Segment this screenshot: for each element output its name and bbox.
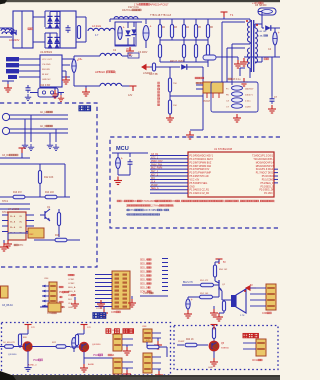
svg-text:KEY_2: KEY_2	[151, 175, 159, 177]
svg-text:OU: OU	[19, 216, 23, 218]
resistor R25 vertical	[212, 327, 215, 341]
svg-text:COM2: COM2	[68, 283, 75, 285]
svg-text:PWM_OXV: PWM_OXV	[151, 161, 163, 163]
svg-text:15K: 15K	[173, 105, 177, 107]
resistor R23	[146, 340, 167, 357]
svg-text:PC817: PC817	[203, 101, 211, 103]
svg-text:R24 1K: R24 1K	[186, 339, 194, 341]
svg-text:+12V: +12V	[143, 293, 149, 295]
wire drv1 down	[27, 351, 29, 364]
label AC	[9, 38, 20, 42]
svg-text:GND: GND	[68, 307, 73, 309]
svg-text:RI SW: RI SW	[42, 74, 49, 76]
mcu wire labels	[151, 154, 163, 190]
svg-text:R51 472: R51 472	[200, 280, 209, 282]
diode D6 vertical	[131, 22, 136, 45]
svg-text:FB DRV: FB DRV	[42, 69, 51, 71]
svg-text:PUMP: PUMP	[151, 185, 158, 187]
svg-text:18uH=1u: 18uH=1u	[122, 9, 132, 12]
svg-text:P3.4/T0/PWM OXV: P3.4/T0/PWM OXV	[190, 169, 210, 171]
diode D8	[262, 25, 280, 31]
wire stub b	[0, 209, 30, 214]
svg-text:MCU: MCU	[116, 146, 129, 152]
svg-text:CN7: CN7	[112, 330, 117, 332]
label gnd1	[20, 377, 28, 379]
wire drv1 in	[0, 346, 4, 348]
resistor R7 second row	[158, 38, 161, 62]
mcu wires left bundle	[150, 156, 188, 194]
ic U2 power controller	[40, 51, 62, 87]
svg-text:R10 0.5W: R10 0.5W	[40, 85, 51, 87]
wire sensor rail c	[0, 196, 70, 198]
flag pump	[211, 325, 218, 330]
transistor Q4 red	[79, 342, 101, 351]
resistor R31 vertical	[168, 100, 177, 114]
svg-text:SEG_G: SEG_G	[140, 284, 148, 286]
svg-text:VCC: VCC	[126, 48, 131, 51]
connector CN7	[112, 330, 133, 351]
net flag 12V	[122, 86, 137, 97]
svg-text:T7B 9-18 T7B 11-8: T7B 9-18 T7B 11-8	[150, 14, 172, 17]
capacitor C5	[26, 85, 31, 93]
svg-text:GND NC: GND NC	[42, 79, 51, 81]
ground drv1	[24, 364, 31, 371]
transformer T1 primary winding	[232, 20, 250, 78]
wire sensor rail b	[0, 164, 65, 197]
resistor R13	[13, 192, 25, 199]
net flag VCC	[122, 48, 139, 58]
connector CN8	[142, 326, 161, 342]
optocoupler U3	[196, 82, 223, 103]
svg-text:P5.1/COM2: P5.1/COM2	[262, 179, 275, 181]
svg-text:DIO: DIO	[68, 299, 72, 301]
connector CN11	[243, 339, 266, 362]
svg-text:P5.0/COM1: P5.0/COM1	[262, 176, 275, 178]
svg-text:C3 400V: C3 400V	[138, 51, 148, 54]
svg-text:FR107 1N60: FR107 1N60	[170, 60, 184, 63]
resistor R21	[3, 342, 23, 348]
transistor Q2	[215, 280, 226, 291]
resistor R30 vertical	[168, 78, 177, 92]
ground cn7	[123, 345, 131, 355]
ground c11	[184, 309, 192, 318]
bridge rectifier D2 D3	[47, 12, 59, 29]
label gnd pump	[208, 367, 213, 369]
label MCU	[116, 146, 129, 152]
svg-text:102M: 102M	[245, 107, 251, 109]
mcu note 4	[126, 214, 160, 217]
transistor Q3 red	[8, 342, 32, 356]
resistor R20 vertical	[18, 334, 28, 348]
label 氧阀风机	[106, 329, 133, 336]
ground in c	[47, 142, 53, 148]
svg-text:+19V: +19V	[252, 2, 258, 5]
label cn7	[108, 354, 115, 357]
mcu wires right bundle	[274, 169, 278, 183]
resistor R19 vertical	[222, 300, 225, 313]
resistor R3	[170, 19, 177, 38]
svg-text:P5.3/SEG_G: P5.3/SEG_G	[261, 186, 274, 188]
19V cluster box	[115, 22, 136, 46]
transformer T1 secondary winding	[255, 24, 262, 63]
filter box with cap C1	[60, 11, 76, 48]
wire secondary bottom	[244, 57, 280, 62]
svg-text:P3.2/INT0/PWM BUZ: P3.2/INT0/PWM BUZ	[190, 162, 212, 164]
svg-text:VCC OUT: VCC OUT	[42, 59, 53, 61]
wire bridge rails	[45, 12, 60, 49]
fuse F2 top right	[255, 4, 276, 15]
svg-text:GND: GND	[190, 186, 195, 188]
svg-text:P5.5/CMPO SEG: P5.5/CMPO SEG	[190, 183, 208, 185]
input block dashed border	[0, 103, 97, 267]
ground in a	[22, 142, 28, 148]
svg-text:CLK: CLK	[151, 181, 156, 183]
hv rail wire	[142, 18, 236, 20]
svg-text:AP8022+PC817: AP8022+PC817	[150, 3, 169, 7]
svg-text:SEG_E: SEG_E	[140, 276, 148, 278]
svg-text:+: +	[121, 157, 123, 161]
thermistor connector CN2	[8, 228, 44, 240]
label vout	[252, 2, 263, 5]
svg-text:P5.2/SEG_F: P5.2/SEG_F	[261, 183, 274, 185]
svg-text:12V: 12V	[31, 327, 35, 329]
svg-text:CX: CX	[226, 101, 230, 103]
flag drv1	[25, 325, 36, 335]
mcu block dashed border	[110, 137, 280, 228]
label 19V	[128, 5, 139, 9]
label choke	[122, 9, 141, 12]
ground safety	[233, 114, 241, 122]
label gnd2	[76, 377, 84, 379]
svg-text:VCC +5V: VCC +5V	[190, 179, 200, 181]
resistor R2	[158, 19, 165, 38]
wire j2 a	[14, 125, 68, 129]
connector CN4 keys	[42, 282, 57, 315]
svg-text:BUZ 2.7K: BUZ 2.7K	[183, 282, 193, 284]
svg-text:C6+: C6+	[78, 58, 83, 61]
buzzer resistor R50 vertical	[213, 259, 228, 281]
wire pump in	[177, 341, 185, 345]
resistor R52 divider	[188, 290, 219, 299]
label vertical fb	[158, 82, 160, 106]
wire sensor rail a	[0, 154, 30, 158]
inductor L2	[88, 24, 115, 37]
net label box 2	[6, 63, 19, 67]
svg-text:Q3 8550: Q3 8550	[8, 354, 17, 356]
ground crystal b	[58, 93, 64, 102]
capacitor C6 electrolytic	[72, 56, 83, 78]
svg-text:SS8550: SS8550	[221, 348, 230, 350]
photo dark bottom edge	[0, 371, 280, 380]
svg-text:R52 103: R52 103	[200, 293, 209, 295]
photo dark top edge	[0, 0, 280, 4]
ground display	[100, 307, 108, 318]
inductor L1 AC input coil	[0, 28, 15, 37]
opamp pins left	[2, 215, 8, 232]
diode D1	[11, 30, 16, 35]
svg-text:R16: R16	[55, 235, 60, 237]
ground below C2	[126, 47, 134, 55]
fuse row 3	[226, 98, 251, 103]
inductor L4	[100, 83, 122, 86]
resistor R1 vertical	[77, 26, 80, 39]
svg-text:U1 STC8G1K08: U1 STC8G1K08	[214, 148, 233, 151]
svg-text:CS GND: CS GND	[42, 64, 51, 66]
ground u2 left	[2, 81, 14, 92]
svg-text:AP8022 (: AP8022 (	[95, 70, 107, 74]
svg-text:0.22u: 0.22u	[245, 101, 251, 103]
wire j1 a	[14, 111, 68, 115]
svg-text:KEY_1: KEY_1	[151, 171, 159, 173]
resistor R14	[45, 192, 57, 199]
label vr	[264, 58, 269, 60]
transformer T1 core	[251, 20, 253, 72]
mcu ic U1 right pin names	[252, 155, 275, 196]
label pwm1	[28, 359, 43, 367]
wire L2 to C2	[115, 22, 120, 45]
wire cap rail	[115, 22, 142, 45]
svg-text:): )	[115, 70, 116, 74]
transistor Q1	[40, 206, 51, 221]
wire secondary to diode	[258, 12, 262, 29]
ground in b	[28, 144, 34, 150]
wire stub a	[0, 201, 30, 204]
resistor R51	[200, 280, 219, 287]
wire vcc rail	[70, 56, 100, 59]
svg-text:COM1: COM1	[68, 279, 75, 281]
svg-text:CN8: CN8	[142, 326, 147, 328]
svg-text:NTC: NTC	[19, 245, 24, 247]
output dotted box	[2, 323, 171, 376]
transistor Q5 red	[209, 341, 229, 351]
ground opamp	[0, 240, 8, 251]
wire u2 pin4	[19, 76, 40, 78]
svg-text:P2.0/SEG_DP: P2.0/SEG_DP	[259, 190, 274, 192]
svg-text:CY: CY	[226, 107, 230, 109]
label crystal	[40, 85, 51, 87]
svg-text:+: +	[123, 26, 125, 30]
key labels right	[44, 278, 49, 280]
ground u2 right b	[62, 71, 70, 84]
svg-text:12V: 12V	[96, 308, 100, 310]
svg-text:SEG_F: SEG_F	[140, 280, 148, 282]
ground above 输出	[96, 300, 105, 310]
svg-text:SEG_B: SEG_B	[68, 291, 76, 293]
key labels	[59, 286, 69, 308]
label 低压泵	[243, 333, 258, 337]
svg-text:CZ_R1: CZ_R1	[2, 155, 10, 157]
label ap8022	[95, 70, 116, 74]
svg-text:CN11: CN11	[252, 360, 258, 362]
svg-text:R50 102: R50 102	[219, 269, 228, 271]
inductor L5 on rail	[110, 17, 142, 22]
bridge rectifier D4 D5	[47, 33, 59, 49]
wire u2 pin2	[19, 64, 40, 66]
ground snubber	[186, 131, 194, 139]
svg-text:+: +	[150, 25, 152, 29]
ground u2 right a	[51, 87, 59, 98]
wire pump down	[213, 351, 215, 358]
svg-text:AC 220V: AC 220V	[9, 38, 20, 42]
wire drop 2	[30, 115, 32, 142]
ground above outbox	[128, 296, 136, 307]
wire u2 pin1	[19, 58, 40, 60]
svg-text:NTC1: NTC1	[2, 201, 9, 203]
label 输出	[93, 313, 106, 318]
svg-text:NTC_1: NTC_1	[151, 157, 159, 159]
svg-text:SEG_B: SEG_B	[140, 264, 148, 266]
svg-text:12V: 12V	[87, 327, 91, 329]
mcu ic U1 body	[188, 148, 274, 197]
svg-text:U4 LM358: U4 LM358	[8, 208, 20, 211]
inductor L3	[100, 53, 122, 56]
flag drv2	[81, 325, 92, 335]
ground above outbox 2	[71, 297, 79, 308]
svg-text:CN5: CN5	[111, 311, 116, 314]
svg-text:SCLK/P1.6 DIG2: SCLK/P1.6 DIG2	[256, 169, 274, 171]
wire hv to primary	[224, 17, 250, 20]
svg-text:CN6: CN6	[262, 312, 267, 315]
wire j1 b	[14, 118, 68, 120]
ground cn8	[154, 338, 162, 349]
mcu ic U1 left pin names	[190, 155, 214, 196]
ground cn9	[123, 368, 131, 378]
svg-text:5V: 5V	[129, 54, 133, 58]
resistor R4	[182, 19, 189, 38]
wire choke to bridge bottom	[33, 33, 60, 48]
zener diode ZD1	[125, 22, 130, 45]
wire choke to bridge top	[33, 11, 60, 27]
svg-text:CZ_R1: CZ_R1	[151, 154, 159, 156]
connector CN6	[250, 284, 276, 315]
capacitor C3 bulk electrolytic	[138, 19, 152, 54]
connector J2 round	[2, 127, 14, 134]
mcu cap C8	[112, 153, 148, 175]
buzzer BZ1 speaker	[222, 289, 246, 317]
svg-text:PUMP: PUMP	[178, 341, 185, 343]
label 输入	[79, 106, 91, 111]
capacitor C7 right edge	[268, 57, 278, 113]
net flag 5V buzzer	[216, 259, 227, 264]
crystal Y1	[30, 88, 64, 97]
connector CN3 small	[1, 286, 9, 298]
resistor R10 second row	[206, 38, 209, 62]
svg-text:L2 2mH: L2 2mH	[92, 24, 101, 28]
divider top	[169, 67, 171, 78]
wire above outbox	[140, 292, 168, 296]
fuse row 1	[226, 78, 254, 90]
resistor R8 second row	[182, 38, 185, 62]
svg-text:12V: 12V	[128, 94, 133, 97]
wire primary bottom down	[222, 22, 250, 85]
svg-text:GND: GND	[208, 367, 213, 369]
svg-text:PWM_: PWM_	[33, 359, 41, 362]
net flag arrow pump	[246, 285, 256, 290]
svg-text:DIO: DIO	[151, 178, 155, 180]
resistor R6	[206, 19, 213, 38]
svg-text:SEG_C: SEG_C	[140, 268, 148, 270]
wire drop 4	[55, 129, 57, 142]
mcu cap C9	[118, 153, 133, 175]
svg-text:,2.7KHz: ,2.7KHz	[151, 206, 160, 208]
svg-text:R14 103: R14 103	[45, 192, 54, 194]
svg-text:BUZ_PWM: BUZ_PWM	[151, 168, 162, 170]
wire u2 right pins	[62, 59, 70, 77]
net flag L	[142, 65, 153, 76]
label hv bus	[150, 14, 172, 17]
wire drop 1	[24, 119, 26, 142]
wire row join	[160, 38, 208, 62]
transformer label	[221, 12, 268, 38]
ground cn2	[4, 240, 24, 248]
ground mid	[222, 57, 242, 68]
opamp pins right	[26, 215, 34, 232]
svg-text:2X 0.1u: 2X 0.1u	[233, 79, 242, 81]
connector CN10	[140, 353, 161, 379]
svg-text:10K B=3950: 10K B=3950	[144, 210, 158, 212]
svg-text:OU: OU	[19, 222, 23, 224]
svg-text:1K_0R 4.7K: 1K_0R 4.7K	[3, 342, 15, 344]
wire drop 3	[49, 133, 51, 142]
wire lower rail	[74, 78, 100, 86]
svg-text:R13 472: R13 472	[13, 192, 22, 194]
mcu note 3	[126, 209, 170, 212]
svg-text:U2 AP8022: U2 AP8022	[40, 51, 53, 54]
resistor R5	[194, 19, 201, 38]
wire u2 pin3	[19, 70, 40, 72]
ground pump	[210, 358, 218, 366]
svg-text:CN2: CN2	[29, 234, 34, 236]
part above outbox	[40, 303, 66, 312]
svg-text:P3.5/T1/PWM PUMP: P3.5/T1/PWM PUMP	[190, 173, 212, 175]
resistor R11 box	[203, 55, 222, 60]
pump dotted box	[174, 326, 278, 370]
svg-text:D10 19V: D10 19V	[258, 31, 267, 33]
svg-text:NTC: NTC	[130, 210, 135, 212]
svg-text:SEG_D: SEG_D	[140, 272, 148, 274]
mcu note 1	[117, 200, 275, 203]
divider mid	[170, 92, 203, 100]
label sampling	[195, 77, 204, 84]
common-mode choke LF1 box	[13, 11, 33, 48]
net label box 3	[6, 69, 19, 73]
fuse row 4	[226, 104, 251, 109]
wire j2 b	[14, 132, 68, 134]
svg-text:R12 10K: R12 10K	[44, 176, 54, 179]
resistor R9 second row	[194, 38, 197, 62]
ground above pump box	[210, 306, 218, 317]
svg-text:OU: OU	[19, 227, 23, 229]
net labels bundle	[140, 259, 168, 294]
svg-text:5V: 5V	[223, 262, 226, 264]
resistor R15 vertical	[57, 209, 60, 237]
ground buzzer	[215, 313, 224, 321]
diode D7 snubber	[150, 60, 203, 71]
opamp U4	[8, 208, 26, 240]
ground divider	[166, 114, 174, 122]
safety parts list box	[211, 82, 258, 112]
ground lower	[82, 86, 90, 96]
svg-text:Q4 8550: Q4 8550	[92, 344, 101, 346]
svg-text:17W: 17W	[134, 3, 140, 7]
mcu note 2	[126, 205, 174, 208]
svg-text:P2.1/NC: P2.1/NC	[264, 193, 273, 195]
connector CN9	[108, 358, 133, 380]
connector J1 round	[2, 113, 14, 120]
ground cn10	[155, 369, 163, 379]
svg-text:10D471: 10D471	[245, 95, 253, 97]
label top red	[134, 3, 169, 7]
